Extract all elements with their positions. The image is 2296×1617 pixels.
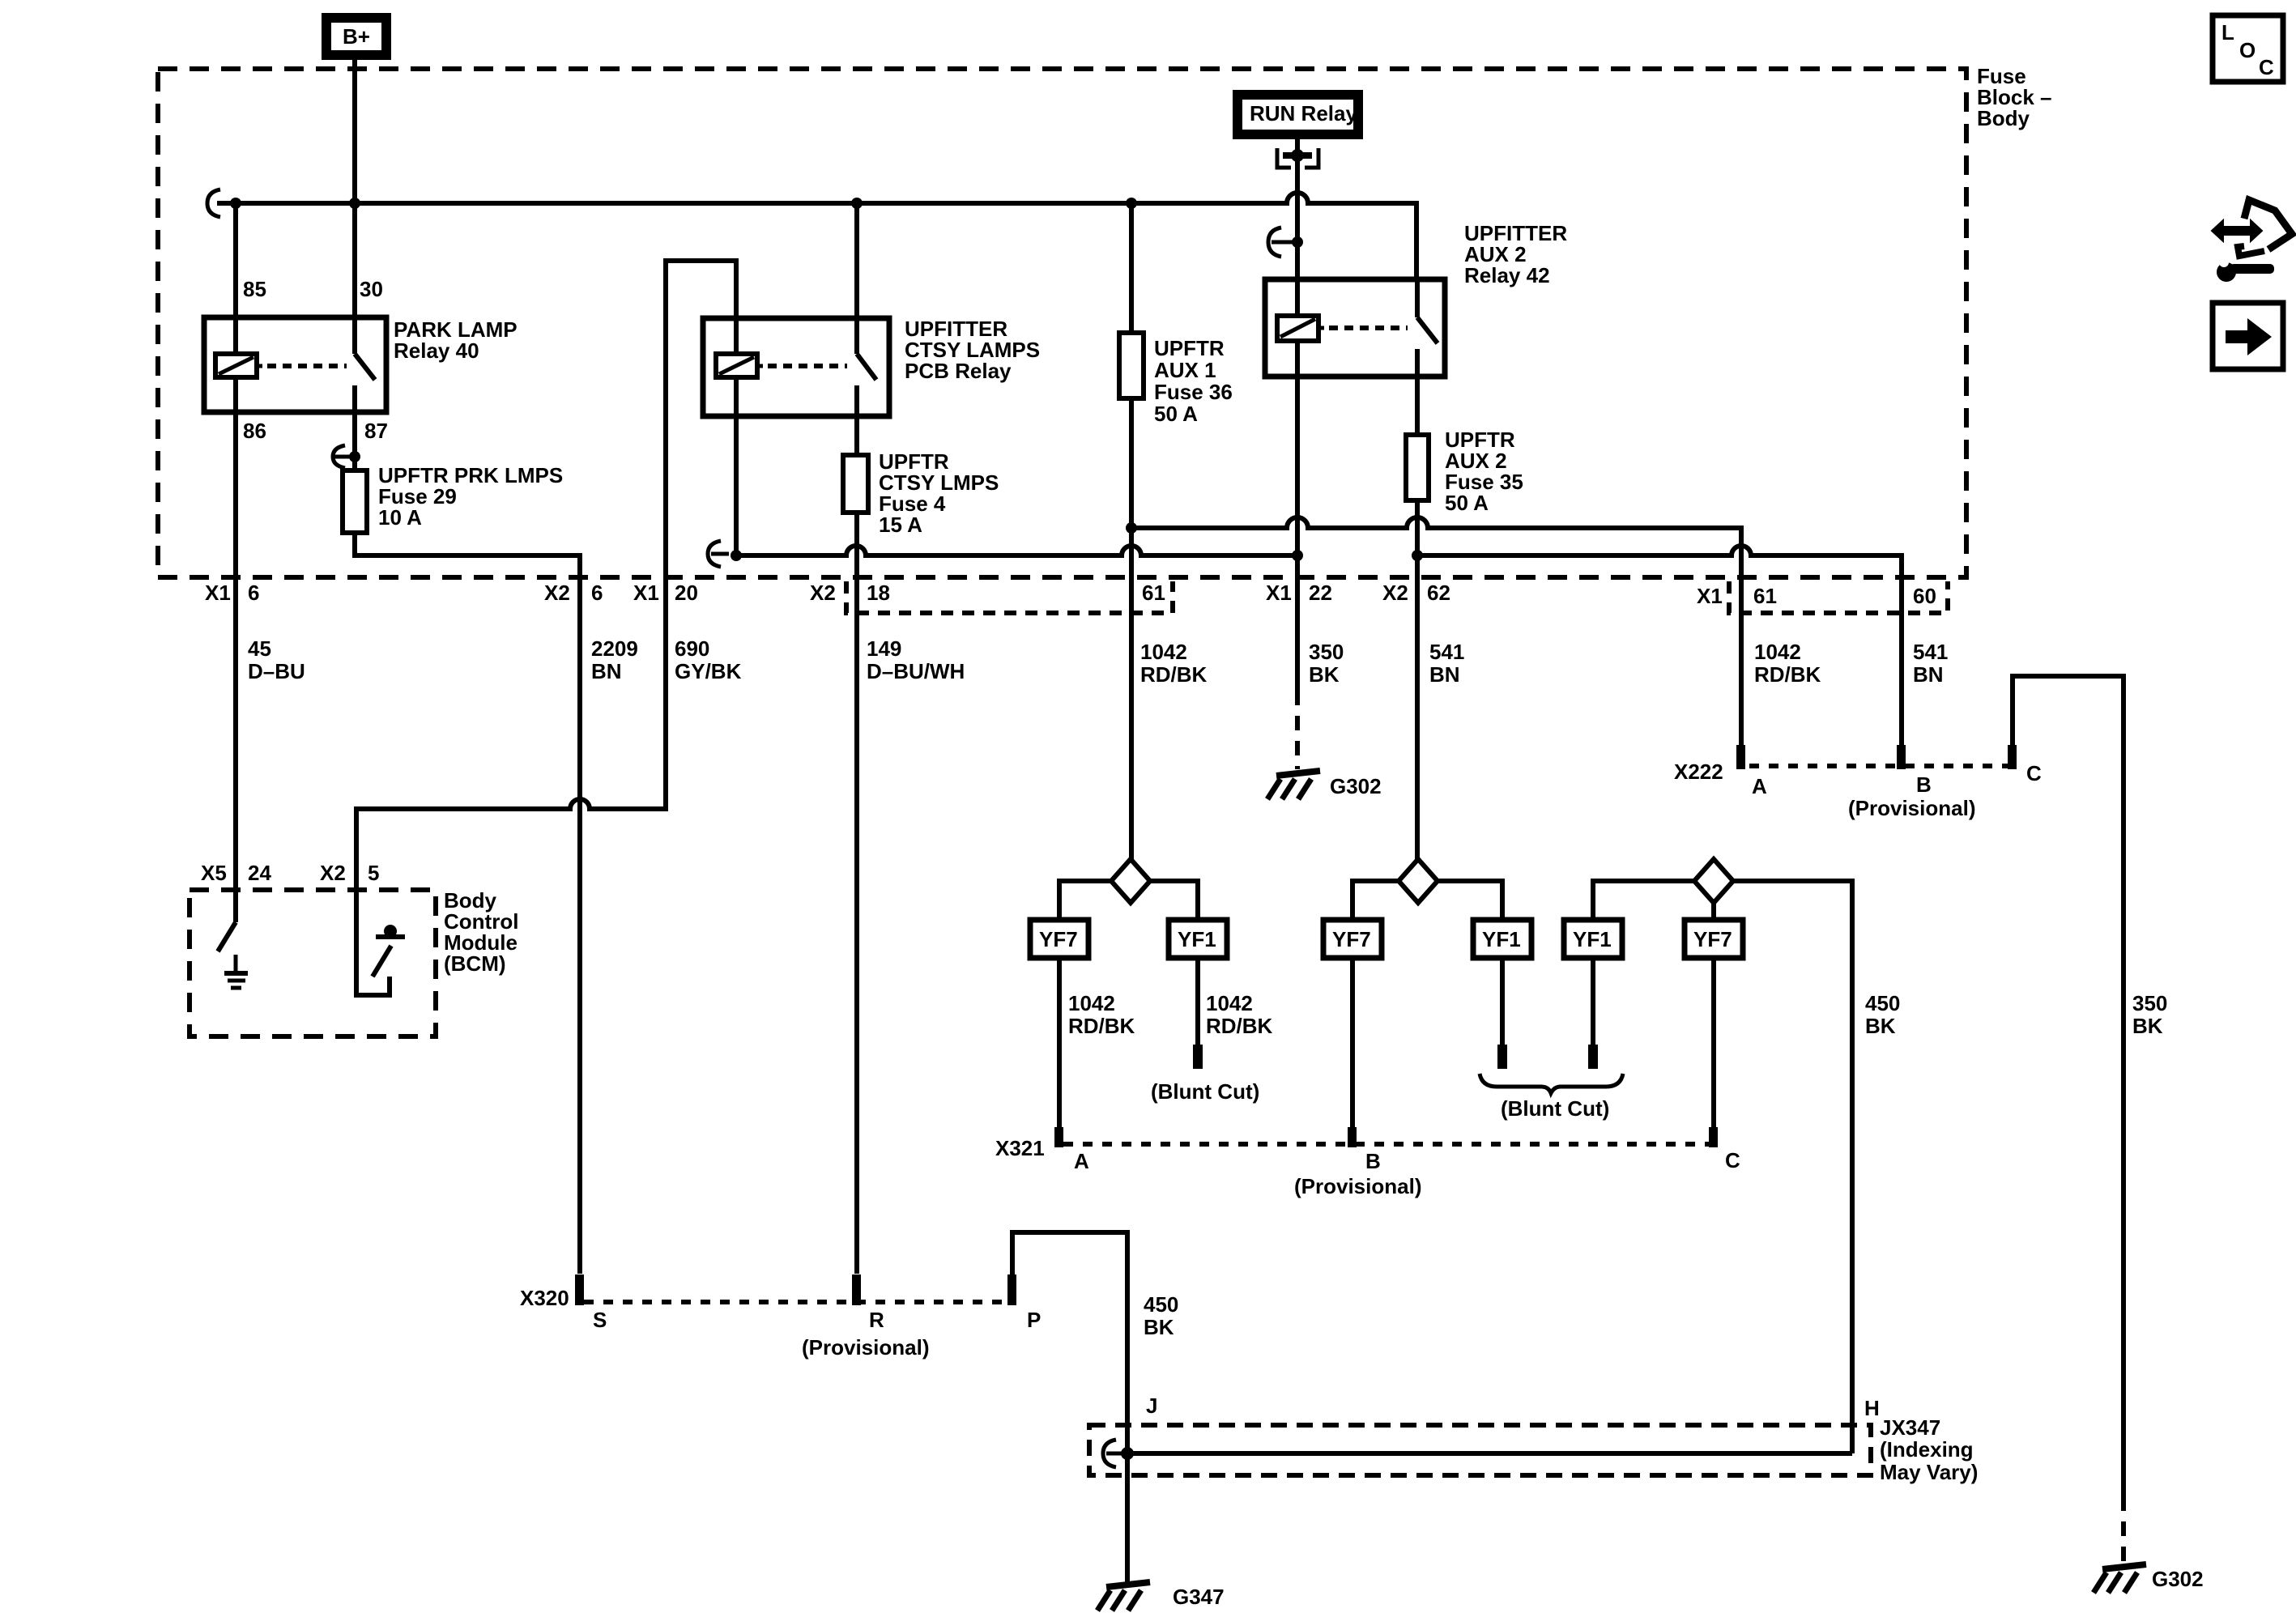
svg-text:A: A <box>1074 1149 1089 1173</box>
wire fuse4 to X2-18 / X320-R (149 D-BU/WH) <box>854 513 859 1274</box>
ground G302 right <box>2094 1564 2204 1593</box>
541 BN bus to X222-B <box>1412 546 1902 747</box>
svg-text:350: 350 <box>2132 991 2167 1015</box>
wire YF7-2 to X321-B <box>1350 958 1355 1127</box>
svg-text:Fuse 36: Fuse 36 <box>1154 380 1233 404</box>
svg-text:X222: X222 <box>1674 760 1723 784</box>
svg-text:50 A: 50 A <box>1445 491 1489 515</box>
label 1042 RD/BK under YF1-1 <box>1206 991 1273 1038</box>
svg-text:X1: X1 <box>633 581 659 605</box>
svg-text:YF1: YF1 <box>1178 927 1216 951</box>
connector X320 <box>520 1274 1041 1360</box>
svg-text:May Vary): May Vary) <box>1880 1460 1978 1484</box>
relay R40 PARK LAMP Relay 40 <box>204 277 518 443</box>
svg-text:X2: X2 <box>320 861 346 885</box>
svg-text:20: 20 <box>675 581 698 605</box>
label 1042 RD/BK under YF7-1 <box>1068 991 1135 1038</box>
wire relay42 switch to fuse 35 <box>1415 377 1420 435</box>
svg-text:YF1: YF1 <box>1482 927 1521 951</box>
svg-text:UPFTR: UPFTR <box>1154 336 1225 360</box>
svg-text:BN: BN <box>1913 662 1944 687</box>
svg-text:BK: BK <box>1309 662 1340 687</box>
YF1 code box 1 <box>1169 920 1227 958</box>
wire YF7-1 to X321-A <box>1057 958 1062 1127</box>
fuse F36 UPFTR AUX 1 Fuse 36 50 A <box>1119 333 1233 426</box>
wire relay42 coil return <box>1295 377 1300 555</box>
svg-text:(Provisional): (Provisional) <box>1294 1174 1421 1198</box>
node bus-fuse36 junction <box>1126 198 1137 209</box>
wire X320-P to JX347 (450 BK) <box>1012 1232 1127 1453</box>
wire bus to relay 40 pin 85 <box>233 203 238 317</box>
svg-text:87: 87 <box>364 419 388 443</box>
label H <box>1864 1396 1880 1420</box>
label 350 BK right <box>2132 991 2167 1038</box>
svg-text:G347: G347 <box>1173 1585 1225 1609</box>
svg-text:(Provisional): (Provisional) <box>802 1335 929 1360</box>
splice S3 <box>1593 859 1852 1453</box>
svg-text:350: 350 <box>1309 640 1344 664</box>
1042 RD/BK bus to X222-A <box>1126 517 1741 747</box>
label 450 BK right <box>1865 991 1900 1038</box>
svg-text:C: C <box>2026 761 2042 785</box>
svg-text:BN: BN <box>591 659 622 683</box>
svg-text:45: 45 <box>248 636 271 661</box>
wire relay40 pin86 to BCM X5-24 (45 D-BU) <box>233 412 238 890</box>
ground G347 <box>1097 1582 1225 1611</box>
svg-text:PCB Relay: PCB Relay <box>905 359 1012 383</box>
node bus-B+ junction <box>349 198 360 209</box>
svg-text:450: 450 <box>1144 1292 1178 1317</box>
svg-text:O: O <box>2239 38 2256 62</box>
splice S2 <box>1352 859 1502 920</box>
wire relay40 pin87 to fuse 29 <box>333 412 360 470</box>
svg-text:X1: X1 <box>1697 584 1723 608</box>
svg-text:R: R <box>869 1308 884 1332</box>
svg-text:B: B <box>1365 1149 1381 1173</box>
svg-text:(Indexing: (Indexing <box>1880 1437 1974 1462</box>
svg-text:X2: X2 <box>1382 581 1408 605</box>
svg-text:450: 450 <box>1865 991 1900 1015</box>
YF7 code box 3 <box>1685 920 1743 958</box>
B+ terminal <box>326 18 386 55</box>
svg-text:5: 5 <box>368 861 379 885</box>
svg-text:Body: Body <box>1977 106 2030 130</box>
splice S1 <box>1059 859 1198 920</box>
svg-text:B+: B+ <box>343 24 370 49</box>
wire RUN relay to relay42 coil (with inline connector) <box>1268 139 1318 279</box>
svg-text:D–BU/WH: D–BU/WH <box>867 659 965 683</box>
YF7 code box 1 <box>1030 920 1088 958</box>
svg-text:P: P <box>1027 1308 1041 1332</box>
svg-text:X2: X2 <box>810 581 836 605</box>
svg-text:2209: 2209 <box>591 636 638 661</box>
svg-text:18: 18 <box>867 581 890 605</box>
svg-text:RD/BK: RD/BK <box>1754 662 1821 687</box>
svg-text:690: 690 <box>675 636 709 661</box>
wire YF7-3 to X321-C <box>1711 958 1716 1127</box>
svg-text:YF7: YF7 <box>1693 927 1732 951</box>
svg-text:24: 24 <box>248 861 271 885</box>
svg-text:22: 22 <box>1309 581 1332 605</box>
svg-text:BK: BK <box>2132 1014 2163 1038</box>
svg-text:H: H <box>1864 1396 1880 1420</box>
fuse block body label <box>1977 64 2052 130</box>
svg-text:BK: BK <box>1865 1014 1896 1038</box>
label 450 BK bottom <box>1144 1292 1178 1339</box>
svg-text:X1: X1 <box>205 581 231 605</box>
svg-text:85: 85 <box>243 277 266 301</box>
svg-text:AUX 1: AUX 1 <box>1154 358 1216 382</box>
svg-text:541: 541 <box>1913 640 1948 664</box>
icon LOC box <box>2213 15 2283 82</box>
svg-text:10 A: 10 A <box>378 505 422 530</box>
svg-text:6: 6 <box>248 581 259 605</box>
svg-text:15 A: 15 A <box>879 513 922 537</box>
YF1 code box 3 <box>1564 920 1622 958</box>
svg-text:YF7: YF7 <box>1039 927 1078 951</box>
svg-text:C: C <box>1725 1148 1740 1172</box>
svg-text:G302: G302 <box>2152 1567 2204 1591</box>
wire PCB relay switch feed <box>854 203 859 318</box>
ground bus wire 350 BK <box>708 541 1303 567</box>
wire color labels row 1 <box>248 636 1948 687</box>
svg-text:X2: X2 <box>544 581 570 605</box>
svg-text:86: 86 <box>243 419 266 443</box>
svg-text:6: 6 <box>591 581 603 605</box>
svg-text:GY/BK: GY/BK <box>675 659 742 683</box>
svg-text:X320: X320 <box>520 1286 569 1310</box>
svg-text:30: 30 <box>360 277 383 301</box>
svg-text:541: 541 <box>1429 640 1464 664</box>
wire 350 BK to G302 <box>1295 555 1300 769</box>
svg-text:(Provisional): (Provisional) <box>1848 796 1975 820</box>
svg-text:50 A: 50 A <box>1154 402 1198 426</box>
relay PCB UPFITTER CTSY LAMPS PCB Relay <box>703 317 1040 416</box>
svg-text:149: 149 <box>867 636 901 661</box>
connector X2 sub-outline (pins 18-61) <box>846 581 1173 613</box>
wire PCB switch out to fuse 4 <box>854 416 859 455</box>
ground G302 <box>1267 771 1382 799</box>
svg-text:S: S <box>593 1308 607 1332</box>
wire BCM X2-5 to PCB relay coil (690 GY/BK) <box>356 261 736 890</box>
svg-text:60: 60 <box>1913 584 1936 608</box>
label J <box>1146 1394 1157 1418</box>
fuse F4 UPFTR CTSY LMPS Fuse 4 15 A <box>843 449 999 537</box>
wire fuse35 down to X2-62 and splice 2 (541 BN) <box>1415 500 1420 859</box>
wire YF1-1 blunt cut <box>1193 958 1203 1069</box>
svg-text:Relay 40: Relay 40 <box>394 338 479 363</box>
connector X321 <box>995 1127 1740 1198</box>
svg-text:D–BU: D–BU <box>248 659 305 683</box>
brace blunt cut pair <box>1480 1074 1623 1093</box>
fuse block body dashed border <box>158 69 1966 577</box>
RUN Relay terminal <box>1237 95 1358 134</box>
svg-text:Relay 42: Relay 42 <box>1464 263 1550 287</box>
svg-text:(Blunt Cut): (Blunt Cut) <box>1501 1096 1609 1121</box>
svg-text:1042: 1042 <box>1754 640 1801 664</box>
svg-text:A: A <box>1752 774 1767 798</box>
battery bus wire <box>207 189 1416 279</box>
connector JX347 <box>1089 1415 1978 1484</box>
YF1 code box 2 <box>1473 920 1531 958</box>
fuse F29 UPFTR PRK LMPS Fuse 29 10 A <box>343 463 563 533</box>
YF7 code box 2 <box>1323 920 1382 958</box>
svg-text:RD/BK: RD/BK <box>1140 662 1208 687</box>
icon hand with wrench <box>2212 200 2292 282</box>
svg-text:JX347: JX347 <box>1880 1415 1940 1440</box>
svg-text:1042: 1042 <box>1206 991 1253 1015</box>
connector X222 <box>1674 745 2042 820</box>
svg-text:RUN Relay: RUN Relay <box>1250 101 1357 126</box>
svg-text:G302: G302 <box>1330 774 1382 798</box>
icon arrow box <box>2213 303 2283 369</box>
svg-text:(BCM): (BCM) <box>444 951 506 976</box>
wire B+ to relay 40 pin 30 <box>352 58 357 317</box>
svg-text:RD/BK: RD/BK <box>1068 1014 1135 1038</box>
svg-text:BK: BK <box>1144 1315 1174 1339</box>
wire fuse36 feed from bus <box>1129 203 1134 333</box>
svg-text:J: J <box>1146 1394 1157 1418</box>
svg-text:X1: X1 <box>1266 581 1292 605</box>
svg-text:YF1: YF1 <box>1573 927 1612 951</box>
svg-text:1042: 1042 <box>1068 991 1115 1015</box>
svg-text:61: 61 <box>1753 584 1777 608</box>
wire YF1-3 blunt cut <box>1588 958 1598 1069</box>
wire fuse29 to X2-6 / X320-S (2209 BN) <box>355 533 580 1274</box>
svg-text:RD/BK: RD/BK <box>1206 1014 1273 1038</box>
svg-text:62: 62 <box>1427 581 1450 605</box>
label blunt cut 2 <box>1501 1096 1609 1121</box>
wire X222-C to 350 BK right <box>2013 676 2123 1563</box>
wire PCB coil return to ground bus <box>734 416 739 555</box>
wire YF1-2 blunt cut <box>1497 958 1507 1069</box>
svg-text:X321: X321 <box>995 1136 1045 1160</box>
svg-text:C: C <box>2259 55 2274 79</box>
node bus-PCB junction <box>851 198 863 209</box>
connector pin labels along fuse block bottom <box>205 581 1936 608</box>
module BCM Body Control Module <box>190 861 518 1036</box>
wire fuse36 to X1-61 and splice 1 (1042 RD/BK) <box>1129 398 1134 859</box>
connector X1 sub-outline (pins 61-60) <box>1729 581 1948 613</box>
svg-text:61: 61 <box>1142 581 1165 605</box>
svg-text:YF7: YF7 <box>1332 927 1371 951</box>
svg-text:BN: BN <box>1429 662 1460 687</box>
svg-text:B: B <box>1916 772 1932 797</box>
fuse F35 UPFTR AUX 2 Fuse 35 50 A <box>1406 428 1523 515</box>
wire JX347 to G347 <box>1125 1453 1130 1582</box>
svg-text:(Blunt Cut): (Blunt Cut) <box>1151 1079 1259 1104</box>
svg-text:L: L <box>2221 20 2234 45</box>
relay R42 UPFITTER AUX 2 Relay 42 <box>1265 221 1567 377</box>
svg-text:X5: X5 <box>201 861 227 885</box>
label blunt cut 1 <box>1151 1079 1259 1104</box>
node bus left junction <box>230 198 241 209</box>
svg-text:1042: 1042 <box>1140 640 1187 664</box>
